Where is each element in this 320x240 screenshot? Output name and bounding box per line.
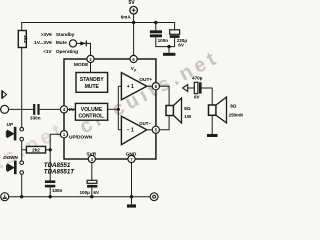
wire pin4 to volume control xyxy=(68,108,76,110)
svg-text:CONTROL.: CONTROL. xyxy=(78,114,105,120)
pin 7 GND xyxy=(128,155,135,162)
svg-text:250mW: 250mW xyxy=(229,113,243,118)
node rail-buttons xyxy=(20,195,23,198)
svg-text:DOWN: DOWN xyxy=(3,155,18,160)
resistor R1 xyxy=(18,31,26,48)
capacitor C5 470u xyxy=(194,82,198,93)
capacitor C3 100u SVR xyxy=(87,180,97,183)
watermark circuits.net xyxy=(0,46,223,210)
wire amp1 to pin8 xyxy=(147,85,153,87)
op-amp -1 xyxy=(121,116,146,144)
svg-text:OUT−: OUT− xyxy=(139,121,151,126)
svg-text:2k2: 2k2 xyxy=(32,148,40,153)
pin 3 SVR xyxy=(88,155,95,162)
wire input terminal to C330n xyxy=(9,108,33,110)
wire C1 bottom join xyxy=(156,37,175,46)
wire UP to DOWN button xyxy=(21,141,23,161)
node amp input xyxy=(117,108,120,111)
wire rail to pin6 Vp xyxy=(133,23,135,56)
svg-text:100n: 100n xyxy=(52,188,63,193)
mode arrow xyxy=(80,41,86,45)
ground G3 xyxy=(207,134,218,137)
svg-text:+ 1: + 1 xyxy=(127,84,134,90)
svg-text:<1V: <1V xyxy=(43,49,52,54)
wire speaker LS1 to pin5 xyxy=(159,116,169,130)
svg-text:GND: GND xyxy=(126,152,137,158)
ground G2 xyxy=(127,204,136,207)
node rail-C100u xyxy=(90,195,93,198)
node rail-C1 xyxy=(154,21,157,24)
svg-text:5V: 5V xyxy=(129,0,136,6)
capacitor C2 220u xyxy=(170,30,180,35)
svg-text:VOLUME: VOLUME xyxy=(81,107,103,113)
svg-text:UP/DOWN: UP/DOWN xyxy=(69,134,93,140)
wire button chain to R2 xyxy=(22,149,27,151)
wire mode node to pin2 xyxy=(77,43,91,55)
wire rail end to C2 xyxy=(174,22,176,30)
pin 6 Vp xyxy=(130,55,137,62)
node caps join xyxy=(167,45,170,48)
input terminal xyxy=(1,105,9,113)
wire supply terminal stub xyxy=(133,14,135,23)
supply terminal 5V xyxy=(130,6,138,14)
volume control box xyxy=(75,103,107,120)
svg-text:8Ω: 8Ω xyxy=(230,104,237,109)
svg-text:6V: 6V xyxy=(178,42,185,47)
svg-text:IN: IN xyxy=(69,107,74,113)
capacitor C1 100n top xyxy=(150,30,162,33)
pin 4 IN xyxy=(60,106,67,113)
svg-text:STANDBY: STANDBY xyxy=(80,77,104,83)
speaker LS2 xyxy=(209,105,217,115)
wire rail to R1 top xyxy=(21,22,23,31)
svg-text:6V: 6V xyxy=(194,95,201,100)
svg-text:Operating: Operating xyxy=(56,49,78,54)
svg-text:6mA: 6mA xyxy=(121,15,132,20)
capacitor C4 100n bottom xyxy=(45,180,55,183)
svg-text:p: p xyxy=(134,68,136,72)
wire C470u to speaker LS2 xyxy=(202,88,213,105)
wire speaker LS2 to ground G3 xyxy=(211,116,213,134)
wire R2 to junction xyxy=(46,149,51,151)
pin 5 OUT- xyxy=(152,126,159,133)
svg-text:UP: UP xyxy=(7,122,14,127)
wire pin3 SVR to C100u xyxy=(91,163,93,181)
wire junction up to pin1 xyxy=(50,134,60,150)
op-amp +1 xyxy=(121,73,146,100)
svg-text:100n: 100n xyxy=(158,38,169,43)
svg-text:MUTE: MUTE xyxy=(85,84,100,90)
wire pin2 into IC xyxy=(90,63,92,73)
svg-text:6V: 6V xyxy=(93,190,100,195)
svg-text:1V...3V6: 1V...3V6 xyxy=(34,40,52,45)
wire junction down to C100n xyxy=(49,150,51,181)
svg-text:330n: 330n xyxy=(30,115,41,120)
wire C100n to ground rail xyxy=(49,187,51,196)
wire C330n to pin4 xyxy=(40,108,61,110)
wire DOWN button to ground rail xyxy=(21,174,23,196)
svg-text:8Ω: 8Ω xyxy=(184,106,191,111)
node R2 junction xyxy=(49,148,52,151)
alt connection arrow xyxy=(183,85,188,92)
svg-text:470µ: 470µ xyxy=(192,76,203,81)
wire join to ground G1 xyxy=(168,47,170,53)
svg-text:− 1: − 1 xyxy=(127,128,134,134)
wire ground rail xyxy=(9,196,150,198)
wire amp input split xyxy=(117,86,119,130)
wire pin7 GND down xyxy=(131,163,133,205)
node rail-C100n xyxy=(49,195,52,198)
svg-text:1W: 1W xyxy=(184,114,192,119)
wire rail to C1 xyxy=(155,23,157,31)
speaker LS1 xyxy=(166,106,174,116)
IC TDA8551 box xyxy=(64,59,156,159)
node rail-pin7 xyxy=(130,195,133,198)
ground G1 xyxy=(163,53,175,56)
standby mute box xyxy=(76,73,108,93)
svg-text:TDA8551T: TDA8551T xyxy=(44,169,75,176)
wire R1 bottom to UP button xyxy=(21,48,23,128)
wire pin8 to speaker LS1 xyxy=(159,86,169,105)
wire 5V rail xyxy=(22,22,175,24)
svg-text:100µ: 100µ xyxy=(79,190,90,195)
wire volume control to amps node xyxy=(108,108,119,110)
wire to amp1 xyxy=(118,85,121,87)
pin 8 OUT+ xyxy=(152,83,159,90)
pin 1 UP/DOWN xyxy=(60,131,67,138)
wire C100u to ground rail xyxy=(91,188,93,197)
mode switch node xyxy=(69,40,76,47)
wire arrow to C470u xyxy=(188,87,195,89)
svg-text:>3V6: >3V6 xyxy=(41,32,52,37)
terminal 0V xyxy=(150,193,158,201)
resistor R2 2k2 xyxy=(26,146,45,153)
input arrow xyxy=(2,90,7,99)
ground terminal xyxy=(1,193,9,201)
pin 2 MODE xyxy=(87,55,94,62)
svg-text:2k2: 2k2 xyxy=(23,35,28,43)
svg-text:SVR: SVR xyxy=(86,152,96,158)
svg-text:MODE: MODE xyxy=(74,62,89,68)
wire to amp2 xyxy=(118,129,121,131)
wire amp2 to pin5 xyxy=(147,129,153,131)
capacitor 330n xyxy=(33,104,35,115)
svg-text:Mute: Mute xyxy=(56,40,67,45)
node rail-supply xyxy=(132,21,135,24)
svg-text:OUT+: OUT+ xyxy=(139,77,152,83)
svg-text:Standby: Standby xyxy=(56,32,75,37)
